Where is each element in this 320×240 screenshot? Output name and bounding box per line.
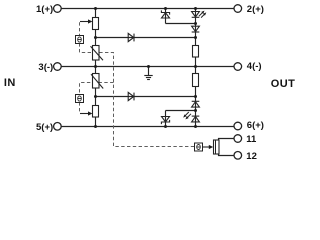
svg-text:5(+): 5(+): [36, 122, 53, 133]
svg-text:11: 11: [246, 134, 257, 145]
svg-text:2(+): 2(+): [247, 4, 264, 15]
svg-text:1(+): 1(+): [36, 4, 53, 15]
svg-text:12: 12: [246, 151, 257, 162]
svg-text:OUT: OUT: [271, 78, 296, 90]
svg-text:3(-): 3(-): [38, 62, 53, 73]
svg-text:IN: IN: [4, 77, 16, 89]
svg-text:6(+): 6(+): [247, 120, 264, 131]
svg-text:4(-): 4(-): [247, 61, 262, 72]
